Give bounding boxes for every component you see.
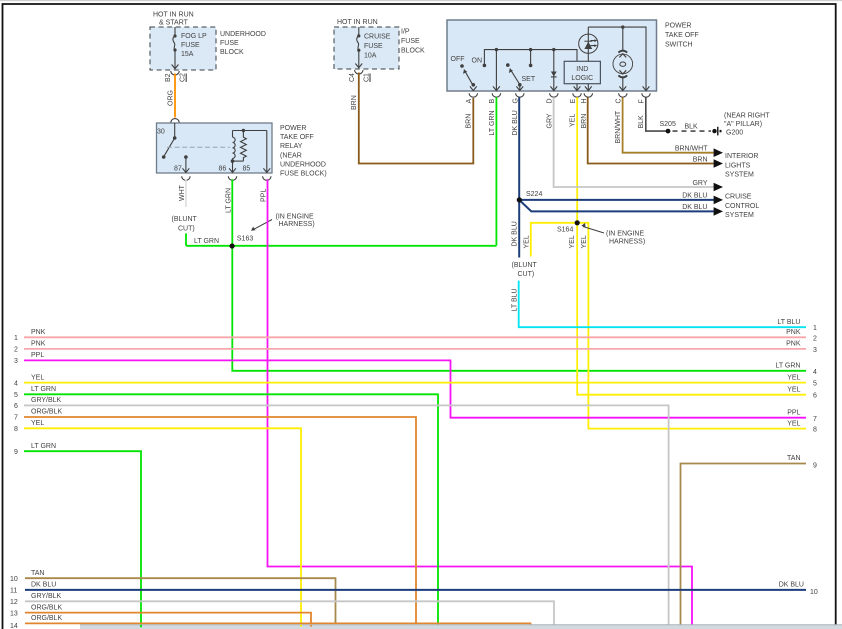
svg-text:"A" PILLAR): "A" PILLAR)	[724, 121, 762, 128]
svg-text:IND: IND	[576, 66, 588, 73]
splice S224	[517, 191, 543, 202]
wire ORG/BLK line 13	[25, 613, 311, 624]
svg-text:13: 13	[10, 610, 18, 617]
wire PNK line 2	[24, 348, 806, 350]
svg-text:1: 1	[14, 335, 18, 342]
svg-text:6: 6	[813, 393, 817, 400]
svg-text:SET: SET	[522, 76, 536, 83]
svg-text:CRUISE: CRUISE	[364, 34, 391, 41]
svg-text:4: 4	[813, 369, 817, 376]
fuse CRUISE 10A	[355, 27, 362, 68]
arrow BRN/WHT to interior lights	[675, 146, 723, 158]
wire ORG/BLK line 14	[25, 623, 531, 627]
svg-text:7: 7	[813, 416, 817, 423]
switch top wire	[588, 25, 646, 90]
svg-text:ORG/BLK: ORG/BLK	[31, 409, 62, 416]
svg-text:8: 8	[813, 427, 817, 434]
svg-text:YEL: YEL	[569, 235, 576, 248]
svg-text:FUSE: FUSE	[401, 38, 420, 45]
wire BRN cruise fuse to switch pin A	[359, 73, 474, 164]
in engine harness callout S163	[251, 214, 315, 231]
wire BRN switch pin H to interior lights	[588, 97, 714, 163]
svg-text:YEL: YEL	[787, 420, 800, 427]
svg-text:POWER: POWER	[280, 125, 306, 132]
wire DK BLU switch pin G to S224	[519, 97, 714, 257]
svg-text:PNK: PNK	[31, 341, 46, 348]
svg-text:D: D	[547, 98, 554, 103]
svg-text:LT GRN: LT GRN	[31, 443, 56, 450]
svg-text:HOT IN RUN: HOT IN RUN	[337, 19, 378, 26]
svg-text:DK BLU: DK BLU	[682, 193, 707, 200]
wire DK BLU line 11	[25, 589, 806, 591]
svg-text:LT GRN: LT GRN	[31, 386, 56, 393]
svg-text:SYSTEM: SYSTEM	[725, 212, 754, 219]
svg-text:BLOCK: BLOCK	[220, 49, 244, 56]
fuse block CRUISE (I/P)	[334, 19, 425, 69]
switch SET contact	[506, 50, 532, 91]
svg-text:GRY: GRY	[692, 180, 707, 187]
svg-text:PPL: PPL	[31, 352, 44, 359]
svg-text:3: 3	[14, 358, 18, 365]
svg-text:30: 30	[157, 129, 165, 136]
svg-text:A: A	[466, 99, 473, 104]
relay mechanical link	[167, 146, 230, 148]
svg-text:85: 85	[243, 166, 251, 173]
svg-text:1: 1	[813, 325, 817, 332]
svg-text:7: 7	[14, 415, 18, 422]
svg-text:PNK: PNK	[786, 341, 801, 348]
relay pin cups	[182, 176, 271, 180]
svg-text:HARNESS): HARNESS)	[609, 239, 645, 246]
svg-text:(BLUNT: (BLUNT	[172, 216, 198, 223]
svg-text:GRY/BLK: GRY/BLK	[31, 593, 62, 600]
top hairline	[0, 0, 842, 1]
svg-text:YEL: YEL	[787, 374, 800, 381]
pin B internal line	[495, 50, 497, 91]
svg-text:SYSTEM: SYSTEM	[725, 172, 754, 179]
switch OFF contact	[460, 64, 475, 86]
svg-text:S205: S205	[660, 121, 676, 128]
svg-text:2: 2	[813, 335, 817, 342]
svg-text:5: 5	[813, 381, 817, 388]
relay coil	[233, 131, 236, 162]
svg-text:LT GRN: LT GRN	[194, 238, 219, 245]
wire WHT relay 87 blunt cut	[185, 180, 187, 208]
svg-text:87: 87	[174, 166, 182, 173]
svg-text:C: C	[616, 98, 623, 103]
svg-text:ORG: ORG	[168, 90, 175, 106]
svg-text:YEL: YEL	[31, 374, 44, 381]
left wire labels and numbers	[10, 329, 62, 629]
wire GRY/BLK line 6	[24, 405, 669, 625]
svg-text:I/P: I/P	[401, 29, 410, 36]
svg-text:DK BLU: DK BLU	[31, 582, 56, 589]
svg-text:UNDERHOOD: UNDERHOOD	[220, 31, 266, 38]
arrow GRY to cruise control	[692, 180, 723, 191]
switch pin cups	[469, 93, 650, 97]
arrow BRN to interior lights	[693, 157, 723, 168]
wire PNK line 1	[24, 336, 806, 338]
svg-text:LOGIC: LOGIC	[571, 75, 593, 82]
right wire labels and numbers	[775, 319, 817, 596]
svg-text:10A: 10A	[364, 53, 377, 60]
wire GRY switch pin D	[554, 97, 714, 187]
svg-text:CONTROL: CONTROL	[725, 203, 759, 210]
wire YEL line 4	[24, 382, 806, 384]
svg-text:FUSE BLOCK): FUSE BLOCK)	[280, 171, 327, 178]
svg-text:9: 9	[14, 449, 18, 456]
wire BLK dashed to G200	[673, 124, 712, 132]
svg-text:DK BLU: DK BLU	[512, 221, 519, 246]
svg-text:CUT): CUT)	[178, 226, 195, 233]
svg-text:LT BLU: LT BLU	[777, 319, 800, 326]
blunt cut label (DK BLU)	[512, 262, 538, 278]
photo transistor circle	[579, 27, 598, 61]
power take off relay box	[157, 123, 327, 178]
svg-text:11: 11	[10, 588, 17, 595]
svg-text:86: 86	[219, 166, 227, 173]
relay pin 85/86 internal lines	[229, 131, 270, 173]
IND LOGIC box U1	[564, 61, 600, 83]
svg-text:GRY/BLK: GRY/BLK	[31, 397, 62, 404]
svg-text:YEL: YEL	[524, 235, 531, 248]
wire YEL S164 left stub	[531, 223, 577, 257]
arrow DK BLU 1 to cruise control	[682, 193, 723, 205]
svg-text:4: 4	[14, 380, 18, 387]
wire PPL line 3	[24, 360, 806, 417]
relay pin30 connector	[171, 119, 179, 138]
wire BLK switch pin F to S205	[646, 97, 666, 131]
svg-text:15A: 15A	[181, 51, 194, 58]
splice S205	[660, 121, 676, 134]
svg-text:5: 5	[14, 392, 18, 399]
relay wire labels	[179, 184, 268, 213]
svg-text:PPL: PPL	[787, 410, 800, 417]
svg-text:TAN: TAN	[31, 570, 44, 577]
relay contact 30/87	[162, 123, 189, 173]
svg-text:12: 12	[10, 599, 18, 606]
svg-text:LIGHTS: LIGHTS	[725, 162, 751, 169]
wire YEL switch pin E to S164 and line 6 right	[577, 97, 806, 395]
diode on pin D	[551, 50, 557, 91]
wire LT GRN line 9	[24, 451, 141, 626]
IND LOGIC outputs to pins E and H	[577, 84, 588, 91]
svg-text:CRUISE: CRUISE	[725, 194, 752, 201]
wire LT GRN relay 86 to S163 and line 4 right	[232, 179, 806, 370]
svg-text:3: 3	[813, 347, 817, 354]
svg-text:B2: B2	[165, 73, 172, 82]
svg-text:FUSE: FUSE	[364, 43, 383, 50]
splice S163	[194, 236, 253, 249]
svg-text:FOG LP: FOG LP	[181, 33, 207, 40]
svg-text:14: 14	[10, 623, 18, 629]
svg-text:(NEAR: (NEAR	[280, 152, 302, 159]
svg-text:& START: & START	[159, 20, 189, 27]
svg-text:6: 6	[14, 403, 18, 410]
ground G200	[712, 113, 770, 137]
svg-text:YEL: YEL	[31, 420, 44, 427]
svg-text:BLOCK: BLOCK	[401, 48, 425, 55]
svg-text:SWITCH: SWITCH	[665, 42, 693, 49]
svg-text:BRN: BRN	[693, 157, 708, 164]
svg-text:S164: S164	[557, 227, 573, 234]
svg-text:G200: G200	[726, 130, 743, 137]
svg-text:BLK: BLK	[638, 115, 645, 129]
wire LT BLU down to line 1 right	[519, 281, 806, 328]
blunt cut label (WHT)	[172, 216, 198, 233]
svg-text:WHT: WHT	[179, 184, 186, 201]
svg-text:YEL: YEL	[787, 386, 800, 393]
svg-text:C2: C2	[180, 73, 187, 82]
svg-text:F: F	[639, 99, 646, 103]
svg-text:TAN: TAN	[787, 455, 800, 462]
arrow DK BLU 2 to cruise control	[682, 204, 723, 216]
svg-text:GRY: GRY	[547, 113, 554, 128]
wire LT GRN line 5	[24, 394, 438, 625]
svg-text:ORG/BLK: ORG/BLK	[31, 615, 62, 622]
svg-text:S163: S163	[237, 236, 253, 243]
svg-text:PNK: PNK	[31, 329, 46, 336]
svg-text:POWER: POWER	[665, 23, 691, 30]
svg-text:TAKE OFF: TAKE OFF	[280, 134, 314, 141]
svg-text:(NEAR RIGHT: (NEAR RIGHT	[724, 113, 770, 120]
svg-text:ORG/BLK: ORG/BLK	[31, 604, 62, 611]
fuse block FOG LP (underhood)	[150, 12, 266, 71]
wire GRY/BLK line 12	[25, 601, 554, 625]
svg-text:BRN/WHT: BRN/WHT	[615, 110, 622, 143]
wire TAN line 10 left	[25, 578, 336, 624]
svg-text:(IN ENGINE: (IN ENGINE	[606, 231, 644, 238]
svg-text:10: 10	[810, 589, 818, 596]
svg-text:INTERIOR: INTERIOR	[725, 153, 758, 160]
svg-text:YEL: YEL	[581, 235, 588, 248]
svg-text:BLK: BLK	[685, 124, 699, 131]
svg-text:OFF: OFF	[451, 56, 465, 63]
svg-text:LT BLU: LT BLU	[512, 288, 519, 311]
wire TAN line 9 right	[681, 464, 807, 626]
splice S164	[557, 220, 580, 233]
svg-text:2: 2	[14, 347, 18, 354]
wire PPL relay 85 down and right	[268, 179, 693, 624]
wire ORG fuse to relay	[174, 74, 176, 118]
svg-text:10: 10	[10, 576, 18, 583]
svg-text:HOT IN RUN: HOT IN RUN	[153, 12, 194, 19]
svg-text:DK BLU: DK BLU	[682, 204, 707, 211]
switch pin exit arrows	[470, 86, 650, 90]
svg-text:TAKE OFF: TAKE OFF	[665, 32, 699, 39]
svg-text:C1: C1	[363, 73, 370, 82]
svg-text:UNDERHOOD: UNDERHOOD	[280, 161, 326, 168]
svg-text:(BLUNT: (BLUNT	[512, 262, 538, 269]
switch pin letters	[466, 98, 646, 103]
svg-text:S224: S224	[526, 191, 542, 198]
svg-text:BRN/WHT: BRN/WHT	[675, 146, 708, 153]
wire BRN/WHT switch pin C to interior lights	[623, 97, 714, 153]
wire YEL S164 right branch to line 8 right	[577, 223, 806, 429]
svg-text:HARNESS): HARNESS)	[279, 221, 315, 228]
svg-text:BRN: BRN	[466, 114, 473, 129]
svg-text:PPL: PPL	[261, 189, 268, 202]
wire LT GRN S163 branch to switch pin B	[186, 97, 496, 246]
power take off switch box	[447, 20, 699, 91]
connector B2/C2	[171, 71, 186, 82]
switch wire labels	[466, 110, 646, 143]
svg-text:PNK: PNK	[786, 329, 801, 336]
svg-text:DK BLU: DK BLU	[512, 110, 519, 135]
svg-text:B: B	[489, 99, 496, 104]
switch internal bus	[483, 48, 577, 67]
wire ORG/BLK line 7	[24, 417, 416, 623]
svg-text:FUSE: FUSE	[181, 42, 200, 49]
svg-text:DK BLU: DK BLU	[779, 582, 804, 589]
svg-text:FUSE: FUSE	[220, 40, 239, 47]
fuse FOG LP 15A	[172, 27, 179, 69]
relay coil resistor	[231, 129, 267, 163]
svg-text:E: E	[570, 99, 577, 104]
svg-text:BRN: BRN	[351, 95, 358, 110]
bottom scrollbar band	[80, 625, 842, 629]
svg-text:YEL: YEL	[570, 114, 577, 127]
svg-text:C4: C4	[349, 73, 356, 82]
cruise control system label	[725, 194, 759, 220]
svg-text:LT GRN: LT GRN	[775, 363, 800, 370]
svg-text:8: 8	[14, 426, 18, 433]
svg-text:CUT): CUT)	[518, 271, 535, 278]
svg-text:RELAY: RELAY	[280, 143, 303, 150]
in engine harness callout S164	[581, 223, 645, 246]
interior lights system label	[725, 153, 758, 179]
svg-text:ON: ON	[472, 58, 483, 65]
svg-text:LT GRN: LT GRN	[489, 110, 496, 135]
wire YEL line 8 left	[24, 428, 301, 624]
connector C4/C1	[355, 70, 370, 82]
svg-text:9: 9	[813, 463, 817, 470]
svg-text:(IN ENGINE: (IN ENGINE	[276, 214, 314, 221]
indicator lamp	[613, 27, 633, 90]
